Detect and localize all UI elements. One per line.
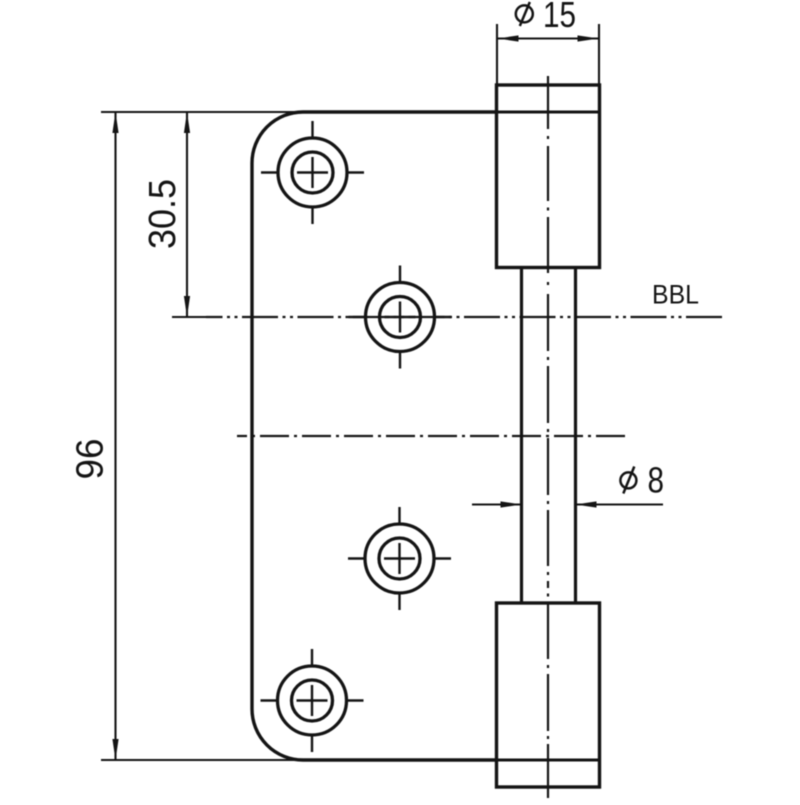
hole H3 crosshair: [348, 507, 451, 610]
diameter symbol for 15: [516, 2, 533, 26]
dimension 96 bottom arrow: [112, 739, 118, 760]
hole H4 crosshair: [261, 649, 364, 752]
diameter 8 right arrow: [576, 501, 597, 507]
extension lines for diameter 15: [497, 24, 599, 85]
bottom knuckle inner line: [497, 759, 600, 762]
extension line for 30.5 at BBL: [172, 316, 207, 318]
top knuckle: [497, 85, 600, 268]
label 8: [648, 460, 665, 501]
hole H1 crosshair: [261, 121, 364, 224]
svg-text:96: 96: [70, 439, 112, 480]
hole H4 inner circle: [292, 680, 333, 721]
dimension line diameter 15: [498, 37, 599, 39]
middle horizontal center line: [237, 435, 625, 437]
extension line top (plate top edge extended left): [101, 111, 303, 113]
dimension 30.5 top arrow: [184, 112, 190, 133]
dimension 96 top arrow: [112, 112, 118, 133]
diameter symbol for 8: [620, 467, 636, 494]
hinge plate outline: [252, 112, 497, 760]
hole H1 inner circle: [292, 152, 333, 193]
bottom knuckle: [497, 603, 600, 787]
hole H3 outer circle: [365, 524, 434, 593]
dimension 30.5 bottom arrow: [184, 296, 190, 317]
hole H2 inner circle: [380, 297, 421, 338]
svg-text:BBL: BBL: [652, 280, 699, 310]
label 96 (rotated): [70, 439, 112, 480]
label 30.5 (rotated): [142, 179, 184, 249]
label 15: [543, 0, 576, 35]
hole H4 outer circle: [278, 666, 347, 735]
svg-text:30.5: 30.5: [142, 179, 184, 249]
diameter 8 left arrow: [501, 501, 522, 507]
diameter 15 left arrow: [498, 35, 519, 41]
hole H3 inner circle: [379, 538, 420, 579]
pin vertical center line: [547, 76, 549, 798]
label BBL: [652, 280, 699, 310]
hinge pin right edge: [574, 268, 577, 604]
dimension line diameter 8 right segment: [576, 503, 664, 505]
dimension line diameter 8 left segment: [472, 503, 522, 505]
svg-text:15: 15: [543, 0, 576, 35]
hinge pin left edge: [520, 268, 523, 604]
dimension line 96: [114, 112, 116, 760]
extension line bottom (plate bottom edge extended left): [101, 759, 303, 761]
hole H2 outer circle: [366, 283, 435, 352]
top knuckle inner line: [497, 111, 600, 114]
diameter 15 right arrow: [578, 35, 599, 41]
hole H2 crosshair: [349, 266, 452, 369]
BBL reference center line: [206, 316, 722, 318]
dimension line 30.5: [186, 112, 188, 317]
svg-text:8: 8: [648, 460, 665, 501]
hole H1 outer circle: [278, 138, 347, 207]
